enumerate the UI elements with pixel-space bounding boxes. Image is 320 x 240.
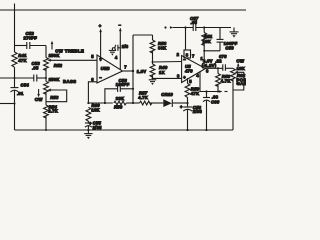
diode CR10 — [161, 92, 187, 107]
svg-text:+: + — [99, 24, 102, 29]
svg-text:270PF: 270PF — [24, 36, 38, 41]
node junction R51 top — [203, 26, 205, 28]
power arrow minus pin4 — [119, 22, 122, 69]
svg-text:5: 5 — [91, 54, 94, 59]
capacitor C53 .05 — [32, 61, 47, 82]
wire R58 top link — [133, 34, 153, 36]
svg-text:GAIN: GAIN — [236, 81, 246, 86]
svg-text:2: 2 — [177, 52, 180, 57]
svg-text:33K: 33K — [158, 45, 166, 50]
node junction x107.5 y102.2 — [104, 102, 106, 104]
node junction pots y78 — [45, 77, 47, 79]
capacitor C54 .01 — [11, 78, 30, 104]
svg-text:4.7K: 4.7K — [221, 78, 231, 83]
svg-text:U5B: U5B — [101, 66, 110, 71]
svg-text:250K: 250K — [49, 77, 60, 82]
wire pin4 row — [200, 71, 228, 93]
node junction R54 rail — [45, 129, 47, 131]
svg-text:2.7K: 2.7K — [48, 108, 58, 113]
node junction x201 y50.8 — [203, 50, 205, 52]
wire left vertical bottom — [14, 104, 16, 131]
svg-text:BASS: BASS — [63, 79, 76, 84]
svg-text:+: + — [180, 105, 183, 110]
node junction x152.5 y62 — [152, 61, 154, 63]
wire pin2 — [153, 61, 182, 64]
svg-text:R59: R59 — [114, 104, 123, 109]
svg-text:100PF: 100PF — [116, 82, 130, 87]
svg-text:6: 6 — [91, 77, 94, 82]
svg-text:+: + — [183, 75, 186, 80]
svg-text:CW: CW — [236, 58, 244, 63]
svg-text:250K: 250K — [49, 53, 60, 58]
power arrow plus — [99, 24, 102, 62]
svg-text:−: − — [119, 22, 122, 27]
svg-text:6: 6 — [206, 68, 209, 73]
svg-text:.01: .01 — [17, 91, 24, 96]
node dot x165.5 y27.5 — [164, 26, 166, 28]
wire top right with arrow — [170, 26, 194, 29]
svg-text:−: − — [99, 75, 102, 80]
wire feedback vertical — [132, 35, 134, 103]
capacitor .22 — [215, 59, 233, 71]
svg-text:CW: CW — [35, 97, 43, 102]
svg-text:33K: 33K — [116, 96, 124, 101]
node junction x187.5 y102.2 — [186, 102, 188, 104]
wire input y78 — [0, 77, 34, 79]
svg-text:R53: R53 — [50, 95, 59, 100]
capacitor C52 270PF — [15, 31, 47, 49]
resistor R51 10K — [202, 28, 213, 51]
svg-text:7: 7 — [124, 65, 127, 70]
resistor R56 4.7K — [216, 68, 231, 91]
svg-text:3: 3 — [177, 74, 180, 79]
node junction C60 rail — [205, 129, 207, 131]
node junction x218 y91.5 — [217, 91, 219, 93]
capacitor C55 2/35 — [85, 120, 102, 130]
svg-text:C54: C54 — [21, 83, 30, 88]
svg-text:+: + — [89, 121, 92, 126]
svg-text:2/6: 2/6 — [122, 44, 129, 49]
wire feedback row — [88, 102, 112, 104]
wire left vertical — [14, 4, 16, 46]
wire pin3 — [153, 77, 182, 79]
node junction C55 rail — [87, 129, 89, 131]
svg-text:R52: R52 — [54, 63, 63, 68]
svg-text:2/35: 2/35 — [193, 109, 203, 114]
svg-text:47K: 47K — [18, 58, 26, 63]
svg-text:4: 4 — [115, 55, 118, 60]
wire pin6 — [88, 82, 97, 103]
capacitor C56 100PF — [105, 78, 134, 103]
svg-text:10K: 10K — [237, 66, 245, 71]
svg-text:4: 4 — [196, 73, 199, 78]
potentiometer R62 post gain 10K — [231, 58, 250, 130]
ground top right — [230, 28, 239, 38]
svg-text:.22: .22 — [215, 59, 222, 64]
wire U5B output — [123, 70, 134, 72]
node junction x218 y68 — [217, 67, 219, 69]
svg-text:1.8V: 1.8V — [137, 69, 147, 74]
wire top border — [0, 9, 246, 11]
svg-text:7: 7 — [192, 53, 195, 58]
svg-text:10K: 10K — [203, 39, 211, 44]
node junction x14.5 y78 — [14, 77, 16, 79]
svg-text:476: 476 — [184, 69, 193, 74]
ground bypass — [109, 48, 116, 56]
resistor R60 10K — [86, 103, 100, 123]
node junction x131.5 y71 — [132, 70, 134, 72]
capacitor C59 100PF — [217, 28, 238, 51]
potentiometer R52 treble 250K — [44, 41, 97, 78]
svg-text:C59: C59 — [225, 46, 234, 51]
potentiometer R53 bass 250K — [35, 77, 67, 105]
resistor R57 4.7K — [138, 90, 163, 105]
ground C55 — [84, 130, 92, 139]
capacitor C60 .68 — [203, 92, 220, 131]
wire input y103.5 — [0, 103, 15, 105]
resistor R50 47K — [185, 78, 200, 103]
node junction C58 rail — [186, 129, 188, 131]
node junction x152.5 y78.4 — [152, 77, 154, 79]
svg-text:8: 8 — [186, 53, 189, 58]
capacitor C58 2/35 — [180, 103, 202, 130]
wire output op2 — [206, 67, 223, 69]
node junction box stub — [184, 26, 186, 28]
op-amp U5 476 — [177, 52, 209, 82]
svg-text:.05: .05 — [32, 66, 39, 71]
svg-text:47K: 47K — [191, 91, 199, 96]
capacitor C57 .05 — [190, 16, 231, 31]
svg-text:5: 5 — [189, 79, 192, 84]
wire bottom rail — [15, 129, 234, 131]
node junction x88.4 y102.2 — [87, 102, 89, 104]
svg-text:2/35: 2/35 — [93, 125, 103, 130]
box waveform 8 — [184, 28, 191, 59]
svg-text:10K: 10K — [91, 108, 99, 113]
resistor R41 47K — [12, 46, 27, 79]
wire pin1 link — [204, 51, 220, 67]
node junction x14.5 y103.5 — [14, 103, 16, 105]
resistor R58 33K — [150, 35, 167, 62]
svg-text:1K: 1K — [159, 70, 165, 75]
resistor R54 2.7K — [44, 104, 58, 130]
svg-text:4.7K: 4.7K — [138, 95, 148, 100]
svg-text:CR10: CR10 — [161, 92, 173, 97]
ground R49 — [149, 80, 157, 85]
resistor R49 1K — [150, 62, 168, 78]
svg-text:.05: .05 — [191, 20, 198, 25]
node junction x207.5 y91.5 — [205, 90, 207, 92]
svg-text:C60: C60 — [211, 99, 220, 104]
capacitor bypass 2/6 — [112, 44, 128, 51]
op-amp U5B — [91, 54, 127, 83]
resistor R59 33K — [114, 96, 140, 109]
node junction x131.5 y102.2 — [132, 102, 134, 104]
